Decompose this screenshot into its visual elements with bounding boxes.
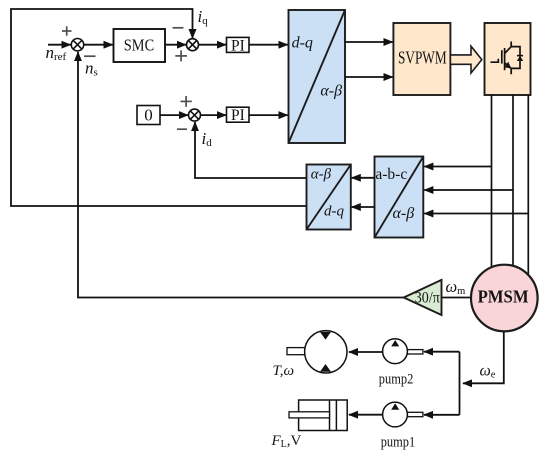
block SMC xyxy=(114,29,166,62)
wire sum1 to SMC xyxy=(84,44,113,46)
diode of IGBT xyxy=(517,56,523,61)
wire PMSM to speed triangle xyxy=(442,297,472,299)
block PI1 xyxy=(227,37,250,52)
summing junction sum2 xyxy=(187,39,199,51)
wire speed feedback to sum1 xyxy=(78,52,404,298)
wire 0 to sum3 xyxy=(160,114,188,116)
block alpha-beta to dq transform xyxy=(307,165,351,230)
summing junction sum3 xyxy=(189,109,201,121)
circle PMSM motor xyxy=(471,265,538,332)
sign plus at sum3 xyxy=(181,96,192,107)
block 0 reference xyxy=(137,106,160,125)
svg-text:T,ω: T,ω xyxy=(273,363,295,379)
wire phase c tap to abc block xyxy=(424,213,528,215)
speed conversion triangle 30/pi xyxy=(404,280,442,315)
hydraulic motor symbol xyxy=(287,331,347,373)
sign minus at sum1 xyxy=(84,55,96,57)
sign minus at sum2 xyxy=(173,27,184,29)
svg-text:d-q: d-q xyxy=(324,204,344,220)
wire sum3 to PI2 xyxy=(200,114,226,116)
svg-text:a-b-c: a-b-c xyxy=(375,166,407,183)
svg-text:PI: PI xyxy=(231,37,245,54)
svg-text:α-β: α-β xyxy=(320,83,342,100)
svg-text:α-β: α-β xyxy=(311,166,332,182)
sign plus at sum2 xyxy=(175,50,187,61)
pump1 symbol xyxy=(383,402,423,427)
summing junction sum1 xyxy=(71,39,83,51)
svg-text:α-β: α-β xyxy=(393,205,415,222)
svg-text:d-q: d-q xyxy=(292,34,313,51)
wire inverter phase a down to PMSM xyxy=(491,95,493,272)
svg-text:pump1: pump1 xyxy=(381,434,416,450)
svg-text:PMSM: PMSM xyxy=(478,287,529,307)
block inverter xyxy=(485,23,531,95)
wire phase b tap to abc block xyxy=(424,189,513,191)
wire vertical distribution line xyxy=(459,352,461,415)
wire dq-ab out2 to SVPWM xyxy=(345,76,393,78)
wire sum2 to PI1 xyxy=(198,44,226,46)
transistor IGBT with diode inside inverter xyxy=(491,42,521,75)
pump2 symbol xyxy=(383,339,423,364)
hydraulic cylinder symbol xyxy=(289,400,347,431)
wire phase a tap to abc block xyxy=(424,166,491,168)
wire i_d feedback xyxy=(195,122,307,178)
svg-text:SMC: SMC xyxy=(124,36,154,55)
wire inverter phase b down to PMSM xyxy=(512,95,514,268)
svg-text:0: 0 xyxy=(144,106,153,125)
wire i_q feedback loop (left and top) xyxy=(11,9,307,206)
svg-text:PI: PI xyxy=(231,107,245,124)
wire omega_e from PMSM down-left xyxy=(463,331,504,383)
wire n_ref input arrow xyxy=(48,44,71,46)
wire dq-ab out1 to SVPWM xyxy=(345,41,393,43)
block SVPWM xyxy=(393,23,450,95)
wire abc block to ab-dq block top xyxy=(352,177,375,179)
sign plus at sum1 xyxy=(62,26,72,35)
sign minus at sum3 xyxy=(177,128,187,130)
block abc to alpha-beta transform xyxy=(375,157,424,238)
svg-text:30/π: 30/π xyxy=(415,289,440,306)
wire pump2 to hydraulic motor xyxy=(349,351,383,353)
wire abc block to ab-dq block bottom xyxy=(352,206,375,208)
wire to pump1 xyxy=(424,414,460,416)
svg-text:FL,V: FL,V xyxy=(271,433,302,450)
block arrow SVPWM to inverter xyxy=(450,46,481,73)
svg-text:pump2: pump2 xyxy=(379,371,414,387)
wire PI1 to dq-ab block xyxy=(249,44,288,46)
wire pump1 to cylinder xyxy=(349,414,383,416)
emitter arrowhead of IGBT xyxy=(505,62,512,69)
svg-text:SVPWM: SVPWM xyxy=(398,47,447,67)
wire PI2 to dq-ab block xyxy=(249,114,288,116)
wire to pump2 xyxy=(424,351,460,353)
block dq to alpha-beta transform xyxy=(289,10,346,143)
wire inverter phase c down to PMSM xyxy=(527,95,529,280)
block PI2 xyxy=(227,107,250,122)
wire SMC to sum2 xyxy=(165,44,186,46)
